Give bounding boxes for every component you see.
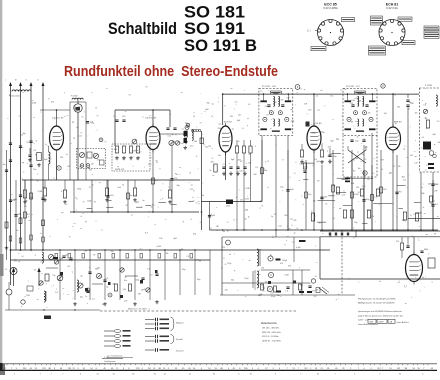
svg-text:50k: 50k xyxy=(123,289,126,291)
svg-text:470: 470 xyxy=(136,158,139,160)
svg-text:R 1500: R 1500 xyxy=(71,96,79,98)
svg-text:220p: 220p xyxy=(87,200,91,202)
svg-text:C12: C12 xyxy=(168,136,171,138)
svg-text:220p: 220p xyxy=(135,280,139,282)
svg-text:UKW 87 - 100 MHz: UKW 87 - 100 MHz xyxy=(262,341,281,343)
svg-text:12k: 12k xyxy=(205,146,208,148)
svg-text:47k: 47k xyxy=(280,187,283,189)
svg-text:F 1939: F 1939 xyxy=(425,85,433,87)
svg-text:77µH: 77µH xyxy=(244,278,249,280)
svg-text:R7: R7 xyxy=(382,160,384,162)
svg-text:220p: 220p xyxy=(312,148,316,150)
svg-text:220p: 220p xyxy=(312,132,316,134)
svg-text:gegen Masse gemessen. Meßwerte: gegen Masse gemessen. Meßwerte gelten be… xyxy=(358,314,403,317)
svg-text:47k: 47k xyxy=(240,199,243,201)
svg-text:10n: 10n xyxy=(238,114,241,116)
svg-text:0,1: 0,1 xyxy=(235,102,238,104)
svg-text:47k: 47k xyxy=(112,283,115,285)
svg-text:6p8: 6p8 xyxy=(433,134,436,136)
svg-text:0,1: 0,1 xyxy=(265,281,268,283)
svg-text:Oszillogramm: Oszillogramm xyxy=(104,360,116,363)
svg-text:6p8: 6p8 xyxy=(320,131,323,133)
svg-text:30p: 30p xyxy=(177,185,180,187)
svg-text:0,5M: 0,5M xyxy=(38,191,43,193)
svg-text:47k: 47k xyxy=(396,241,399,243)
svg-text:C12: C12 xyxy=(299,164,302,166)
svg-text:8,2: 8,2 xyxy=(353,171,356,173)
svg-text:UKW: UKW xyxy=(379,322,384,324)
svg-text:12k: 12k xyxy=(367,210,370,212)
svg-text:ECH 81: ECH 81 xyxy=(386,3,399,7)
svg-text:R7: R7 xyxy=(270,255,272,257)
svg-text:Rundfunkteil ohne Stereo-Ends: Rundfunkteil ohne Stereo-Endstufe xyxy=(64,64,278,80)
svg-text:50k: 50k xyxy=(264,170,267,172)
svg-text:30p: 30p xyxy=(355,141,358,143)
svg-text:8,2: 8,2 xyxy=(314,296,317,298)
svg-text:C 8: C 8 xyxy=(437,121,440,123)
svg-text:0,5M: 0,5M xyxy=(285,274,289,276)
svg-text:5p: 5p xyxy=(212,103,214,105)
svg-text:0,5M: 0,5M xyxy=(132,151,137,153)
svg-text:8,2: 8,2 xyxy=(403,179,406,181)
svg-text:C12: C12 xyxy=(341,195,344,197)
svg-text:150p: 150p xyxy=(59,258,63,260)
svg-text:470: 470 xyxy=(193,234,196,236)
svg-text:25k: 25k xyxy=(362,154,365,156)
svg-text:5p: 5p xyxy=(260,201,262,203)
svg-text:C12: C12 xyxy=(148,164,151,166)
svg-text:12k: 12k xyxy=(159,238,162,240)
svg-text:R7: R7 xyxy=(27,142,29,144)
svg-text:10n: 10n xyxy=(308,194,311,196)
svg-text:5p: 5p xyxy=(66,255,68,257)
svg-text:KW 5,9 - 18 MHz: KW 5,9 - 18 MHz xyxy=(262,336,279,338)
svg-text:C 8: C 8 xyxy=(223,164,226,166)
svg-text:10n: 10n xyxy=(33,169,36,171)
svg-text:0,1: 0,1 xyxy=(76,127,79,129)
svg-text:10n: 10n xyxy=(415,113,418,115)
svg-text:C10: C10 xyxy=(122,116,125,118)
svg-text:6800: 6800 xyxy=(424,249,428,251)
svg-text:47k: 47k xyxy=(293,220,296,222)
svg-text:C54: C54 xyxy=(356,187,359,189)
svg-text:1/2 ECC 85: 1/2 ECC 85 xyxy=(52,118,64,120)
svg-text:Sp: Sp xyxy=(3,164,5,166)
svg-text:1k: 1k xyxy=(122,185,124,187)
svg-text:5p: 5p xyxy=(106,286,108,288)
svg-text:C 8: C 8 xyxy=(186,256,189,258)
svg-text:50k: 50k xyxy=(397,106,400,108)
svg-text:AM-Spielweite 74,12-007 ZF: AM-Spielweite 74,12-007 ZF=460kHz xyxy=(358,302,394,305)
svg-text:12k: 12k xyxy=(90,122,93,124)
svg-text:0,1: 0,1 xyxy=(332,218,335,220)
svg-text:R7: R7 xyxy=(267,107,269,109)
svg-text:5p: 5p xyxy=(232,129,234,131)
svg-text:7,5k: 7,5k xyxy=(52,275,55,277)
svg-text:6p8: 6p8 xyxy=(174,238,177,240)
svg-text:6p8: 6p8 xyxy=(351,183,354,185)
svg-text:8,2: 8,2 xyxy=(408,108,411,110)
svg-text:(M26 214 + P2 200/1 ···): (M26 214 + P2 200/1 ···) xyxy=(128,308,150,310)
svg-text:30p: 30p xyxy=(354,222,357,224)
svg-text:MW 510 -1620 kHz: MW 510 -1620 kHz xyxy=(262,332,281,334)
svg-text:50k: 50k xyxy=(248,162,251,164)
svg-text:R7: R7 xyxy=(266,115,268,117)
svg-text:10n: 10n xyxy=(287,97,290,99)
svg-text:1M: 1M xyxy=(410,155,413,157)
svg-text:10n: 10n xyxy=(124,280,127,282)
svg-text:Schaltbild: Schaltbild xyxy=(108,20,177,38)
svg-text:0,5M: 0,5M xyxy=(32,103,36,105)
svg-text:1k: 1k xyxy=(248,217,250,219)
svg-text:10n: 10n xyxy=(358,168,361,170)
svg-text:1M: 1M xyxy=(122,159,125,161)
svg-text:10n: 10n xyxy=(239,171,242,173)
svg-text:5p: 5p xyxy=(102,304,104,306)
svg-text:0,1: 0,1 xyxy=(393,165,396,167)
svg-text:Konzert: Konzert xyxy=(176,350,184,353)
svg-text:6p8: 6p8 xyxy=(259,294,262,296)
svg-text:6p8: 6p8 xyxy=(245,210,248,212)
svg-text:1k: 1k xyxy=(125,277,127,279)
svg-text:6p8: 6p8 xyxy=(114,149,117,151)
svg-text:C12: C12 xyxy=(190,145,193,147)
svg-text:0,1: 0,1 xyxy=(365,147,368,149)
svg-text:8,2: 8,2 xyxy=(67,266,70,268)
svg-text:30p: 30p xyxy=(231,279,234,281)
svg-text:12k: 12k xyxy=(421,148,424,150)
svg-text:C202: C202 xyxy=(26,295,30,297)
svg-text:50k: 50k xyxy=(324,197,327,199)
svg-text:0,5M: 0,5M xyxy=(245,188,249,190)
svg-text:47k: 47k xyxy=(89,169,92,171)
svg-text:220p: 220p xyxy=(291,120,295,122)
svg-text:6p8: 6p8 xyxy=(205,109,208,111)
svg-text:C 8: C 8 xyxy=(362,139,365,141)
svg-text:220V~ auf: 220V~ auf xyxy=(358,320,368,322)
svg-text:0,1: 0,1 xyxy=(248,104,251,106)
svg-text:12k: 12k xyxy=(313,200,316,202)
svg-text:C12: C12 xyxy=(350,103,353,105)
svg-text:ECC 85: ECC 85 xyxy=(324,3,337,7)
svg-text:C 8: C 8 xyxy=(285,290,288,292)
svg-text:R7: R7 xyxy=(317,110,319,112)
svg-text:47k: 47k xyxy=(368,113,371,115)
svg-text:10k: 10k xyxy=(194,141,197,143)
svg-text:0,1: 0,1 xyxy=(255,167,258,169)
svg-text:10n: 10n xyxy=(270,293,273,295)
svg-text:P1 1597 - 126: P1 1597 - 126 xyxy=(262,86,277,88)
svg-text:12k: 12k xyxy=(315,290,318,292)
svg-text:47k: 47k xyxy=(280,100,283,102)
svg-text:1k: 1k xyxy=(329,160,331,162)
svg-text:0,1: 0,1 xyxy=(152,204,155,206)
svg-text:6,3V 0,435A: 6,3V 0,435A xyxy=(323,6,338,10)
svg-text:1k: 1k xyxy=(144,289,146,291)
svg-text:6p8: 6p8 xyxy=(237,120,240,122)
svg-text:0,1: 0,1 xyxy=(372,173,375,175)
svg-text:47k: 47k xyxy=(222,247,225,249)
svg-text:0,5M: 0,5M xyxy=(157,246,162,248)
svg-text:8,2: 8,2 xyxy=(55,292,58,294)
svg-text:10n: 10n xyxy=(277,295,280,297)
svg-text:12k: 12k xyxy=(359,100,362,102)
svg-text:6p8: 6p8 xyxy=(402,220,405,222)
svg-text:C12: C12 xyxy=(414,163,417,165)
svg-text:10n: 10n xyxy=(218,155,221,157)
svg-text:C 8: C 8 xyxy=(184,140,187,142)
svg-text:0,1µF: 0,1µF xyxy=(271,296,275,298)
svg-text:5p: 5p xyxy=(219,124,221,126)
svg-text:6p8: 6p8 xyxy=(355,158,358,160)
svg-text:6p8: 6p8 xyxy=(317,161,320,163)
svg-text:220p: 220p xyxy=(77,189,81,191)
svg-text:0,1: 0,1 xyxy=(92,299,95,301)
svg-text:10n: 10n xyxy=(77,107,80,109)
svg-text:220p: 220p xyxy=(218,128,222,130)
svg-text:1/2 ECC 85: 1/2 ECC 85 xyxy=(145,118,157,120)
svg-text:220p: 220p xyxy=(328,156,332,158)
svg-text:5p: 5p xyxy=(267,286,269,288)
svg-text:R7: R7 xyxy=(290,219,292,221)
svg-text:30k: 30k xyxy=(211,162,214,164)
svg-text:5000: 5000 xyxy=(226,206,230,208)
svg-text:P2 1597 - 127: P2 1597 - 127 xyxy=(346,86,361,88)
svg-text:R7: R7 xyxy=(262,287,264,289)
svg-text:C 8: C 8 xyxy=(426,165,429,167)
svg-text:M.F.E 126: M.F.E 126 xyxy=(115,169,125,171)
svg-text:5p: 5p xyxy=(171,134,173,136)
svg-text:470: 470 xyxy=(288,266,291,268)
svg-text:25k: 25k xyxy=(284,215,287,217)
svg-text:5p: 5p xyxy=(81,275,83,277)
svg-text:0,1: 0,1 xyxy=(185,122,188,124)
svg-text:Spannungen mit GRUNDIG-Röhrenv: Spannungen mit GRUNDIG-Röhrenvoltmeter xyxy=(358,310,402,313)
svg-text:220p: 220p xyxy=(227,263,231,265)
svg-text:10n: 10n xyxy=(99,276,102,278)
svg-text:0,5M: 0,5M xyxy=(354,194,359,196)
svg-text:47k: 47k xyxy=(312,291,315,293)
svg-text:ohne Außen-: ohne Außen- xyxy=(397,321,410,324)
svg-text:L: L xyxy=(5,80,6,82)
svg-text:0,5M: 0,5M xyxy=(245,199,249,201)
svg-text:C12: C12 xyxy=(78,136,81,138)
svg-text:470: 470 xyxy=(225,289,228,291)
svg-text:1k: 1k xyxy=(357,136,359,138)
svg-text:Magnet.: Magnet. xyxy=(176,322,184,325)
svg-text:12k: 12k xyxy=(174,178,177,180)
svg-text:6p8: 6p8 xyxy=(331,141,334,143)
svg-text:47k: 47k xyxy=(371,216,374,218)
svg-text:10n: 10n xyxy=(330,96,333,98)
svg-text:50k: 50k xyxy=(20,135,23,137)
svg-text:470: 470 xyxy=(97,160,100,162)
svg-text:R7: R7 xyxy=(93,254,95,256)
svg-text:EF 89: EF 89 xyxy=(316,123,323,125)
svg-text:C ≈: C ≈ xyxy=(307,30,312,33)
svg-text:R7: R7 xyxy=(72,122,74,124)
svg-text:0,1: 0,1 xyxy=(422,137,425,139)
svg-text:10n: 10n xyxy=(409,102,412,104)
svg-text:1M: 1M xyxy=(216,226,219,228)
svg-text:Ferritantenne: Ferritantenne xyxy=(9,94,22,97)
svg-text:R7: R7 xyxy=(317,181,319,183)
svg-text:C9: C9 xyxy=(113,116,115,118)
svg-text:470: 470 xyxy=(274,102,277,104)
svg-text:C 8: C 8 xyxy=(149,274,152,276)
svg-text:C12: C12 xyxy=(189,189,192,191)
svg-text:C12: C12 xyxy=(14,261,17,263)
svg-text:50k: 50k xyxy=(421,193,424,195)
svg-text:Kristall: Kristall xyxy=(176,338,183,341)
svg-text:1k: 1k xyxy=(245,218,247,220)
svg-text:220p: 220p xyxy=(69,260,73,262)
svg-text:50k: 50k xyxy=(428,184,431,186)
svg-text:25k: 25k xyxy=(60,157,63,159)
svg-text:LW 145 - 350 kHz: LW 145 - 350 kHz xyxy=(262,328,279,330)
svg-text:1k: 1k xyxy=(316,96,318,98)
svg-text:12k: 12k xyxy=(398,166,401,168)
svg-text:SO 181: SO 181 xyxy=(184,4,245,22)
svg-text:C12: C12 xyxy=(139,249,142,251)
svg-text:30p: 30p xyxy=(207,102,210,104)
svg-text:MW: MW xyxy=(370,322,374,324)
svg-text:1M: 1M xyxy=(138,293,141,295)
svg-text:50k: 50k xyxy=(73,108,76,110)
svg-text:FM-Spielweite 74,15-008 ZF: FM-Spielweite 74,15-008 ZF=10,7MHz xyxy=(358,298,396,301)
svg-text:10n: 10n xyxy=(97,268,100,270)
svg-text:0,1: 0,1 xyxy=(80,297,83,299)
svg-text:5p: 5p xyxy=(271,216,273,218)
svg-text:10n: 10n xyxy=(180,143,183,145)
svg-text:SO 191: SO 191 xyxy=(184,20,245,38)
svg-text:C12: C12 xyxy=(278,226,281,228)
svg-text:C 8: C 8 xyxy=(147,268,150,270)
svg-text:0,5M: 0,5M xyxy=(355,98,359,100)
svg-text:100: 100 xyxy=(336,139,339,141)
svg-text:0,1: 0,1 xyxy=(21,256,24,258)
svg-text:470: 470 xyxy=(280,263,283,265)
svg-text:1k: 1k xyxy=(211,116,213,118)
svg-text:10n: 10n xyxy=(42,187,45,189)
svg-text:1n: 1n xyxy=(85,296,87,298)
svg-text:SO 191 B: SO 191 B xyxy=(184,37,257,55)
svg-text:100: 100 xyxy=(79,166,82,168)
svg-text:C 8: C 8 xyxy=(423,104,426,106)
svg-text:50k: 50k xyxy=(166,253,169,255)
svg-text:150pF: 150pF xyxy=(282,260,288,262)
svg-text:Wellenbereiche: Wellenbereiche xyxy=(261,322,278,325)
svg-text:50k: 50k xyxy=(18,214,21,216)
svg-text:C 8: C 8 xyxy=(105,278,108,280)
svg-text:30p: 30p xyxy=(402,176,405,178)
svg-text:100: 100 xyxy=(362,186,365,188)
svg-text:6p8: 6p8 xyxy=(231,159,234,161)
svg-text:0,5M: 0,5M xyxy=(351,100,355,102)
svg-text:100: 100 xyxy=(308,110,311,112)
svg-text:1k: 1k xyxy=(92,184,94,186)
svg-text:50k: 50k xyxy=(12,200,15,202)
svg-text:8,2: 8,2 xyxy=(145,233,148,235)
svg-text:470: 470 xyxy=(51,101,54,103)
svg-text:1k: 1k xyxy=(171,143,173,145)
svg-text:6,3V 0,3A: 6,3V 0,3A xyxy=(386,6,398,10)
